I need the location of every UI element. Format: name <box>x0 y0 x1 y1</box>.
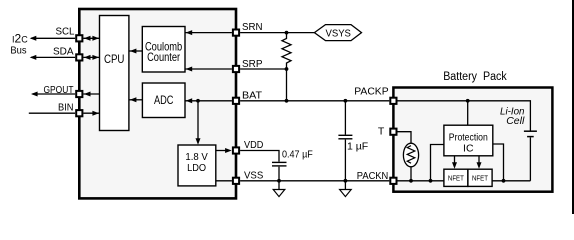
svg-text:T: T <box>378 125 385 137</box>
NFET Q1 <box>444 169 468 186</box>
wire GPOUT internal <box>83 93 99 95</box>
node C2-BAT junction <box>344 99 348 103</box>
ADC box <box>142 83 185 118</box>
protection IC box <box>444 125 493 156</box>
wire SRN internal <box>186 32 232 34</box>
wire SDA external <box>31 56 75 58</box>
node C1-VSS junction <box>277 179 281 183</box>
wire BAT to LDO <box>197 101 199 142</box>
capacitor C1 0.47uF <box>240 151 279 162</box>
wire PACKN rail <box>398 180 444 182</box>
svg-text:PACKN: PACKN <box>357 170 389 182</box>
pin BAT <box>233 98 239 104</box>
svg-text:SRN: SRN <box>242 21 263 33</box>
svg-text:1.8 V: 1.8 V <box>185 151 207 163</box>
svg-text:BIN: BIN <box>58 101 74 113</box>
ground at C1 <box>278 181 280 190</box>
node protection right junction <box>502 179 506 183</box>
coulomb counter box <box>142 27 185 73</box>
svg-text:Counter: Counter <box>147 50 180 64</box>
pin T <box>390 129 396 135</box>
resistor sense R <box>282 33 291 69</box>
Li-Ion cell BT1 <box>529 137 531 180</box>
wire SRN external <box>240 32 314 34</box>
svg-text:SDA: SDA <box>53 46 74 58</box>
svg-text:NFET: NFET <box>448 176 465 183</box>
wire BIN external <box>29 112 75 114</box>
wire protection left sense <box>431 145 444 181</box>
node resistor-BAT junction <box>285 99 289 103</box>
ground at C2 <box>344 181 346 190</box>
pin PACKP <box>390 98 396 104</box>
NFET Q2 <box>468 169 492 186</box>
node SRN-resistor junction <box>285 31 289 35</box>
wire SRP internal <box>186 68 232 70</box>
svg-text:SRP: SRP <box>242 58 263 70</box>
svg-text:IC: IC <box>463 143 474 155</box>
svg-text:I2C: I2C <box>12 32 28 46</box>
LDO box <box>178 145 216 186</box>
pin SCL <box>76 35 82 41</box>
wire thermistor to PACKN rail <box>410 167 412 181</box>
svg-text:VSYS: VSYS <box>325 27 351 39</box>
pin SRP <box>233 66 239 72</box>
wire gate arrow 2 <box>478 156 480 163</box>
node protection feed junction <box>466 99 470 103</box>
wire LDO to VSS <box>216 180 232 182</box>
svg-text:Bus: Bus <box>10 45 26 57</box>
page edge scan line <box>572 0 574 214</box>
capacitor C2 1uF <box>344 101 346 135</box>
pin VSS <box>233 178 239 184</box>
svg-text:CPU: CPU <box>104 52 125 66</box>
wire SRP to BAT <box>286 69 288 101</box>
wire BAT to PACKP <box>240 100 389 102</box>
node BAT-LDO junction <box>196 99 200 103</box>
svg-text:1 µF: 1 µF <box>347 140 368 152</box>
svg-text:BAT: BAT <box>242 90 263 102</box>
svg-text:ADC: ADC <box>154 93 174 107</box>
net flag VSYS <box>314 25 361 41</box>
wire gate arrow 1 <box>454 156 456 163</box>
wire T to thermistor <box>398 132 412 144</box>
thermistor RT <box>403 143 418 167</box>
wire BAT internal <box>186 100 232 102</box>
pin SDA <box>76 54 82 60</box>
wire VSS to PACKN <box>240 180 389 182</box>
wire PACKP rail <box>398 101 531 131</box>
svg-text:Battery Pack: Battery Pack <box>443 71 507 83</box>
svg-text:0.47 µF: 0.47 µF <box>282 149 313 161</box>
svg-text:VSS: VSS <box>244 170 263 182</box>
node C2-VSS junction <box>344 179 348 183</box>
wire protection IC top feed <box>467 101 469 125</box>
pin PACKN <box>390 178 396 184</box>
wire protection right sense <box>493 144 504 181</box>
wire SCL internal <box>83 37 99 39</box>
svg-text:GPOUT: GPOUT <box>44 84 74 96</box>
node thermistor-rail junction <box>409 179 413 183</box>
node SRP junction <box>285 67 289 71</box>
wire LDO to VDD <box>216 150 229 152</box>
svg-text:SCL: SCL <box>56 26 75 38</box>
wire ADC to CPU <box>129 99 142 101</box>
wire GPOUT external <box>33 93 76 95</box>
node protection left junction <box>429 179 433 183</box>
wire SCL external <box>31 37 75 39</box>
wire coulomb to CPU <box>129 50 142 52</box>
svg-text:LDO: LDO <box>187 162 206 174</box>
svg-text:Cell: Cell <box>506 115 525 127</box>
battery pack outline <box>393 88 552 192</box>
wire SRP external <box>240 68 286 70</box>
wire SDA internal <box>83 56 99 58</box>
gauge IC outline <box>79 9 236 198</box>
pin VDD <box>233 147 239 153</box>
svg-text:NFET: NFET <box>472 176 489 183</box>
pin SRN <box>233 30 239 36</box>
svg-text:PACKP: PACKP <box>354 86 388 98</box>
CPU box U-CPU <box>100 16 129 131</box>
pin BIN <box>76 110 82 116</box>
wire BIN internal <box>83 112 99 114</box>
pin GPOUT <box>76 91 82 97</box>
svg-text:VDD: VDD <box>244 139 264 151</box>
